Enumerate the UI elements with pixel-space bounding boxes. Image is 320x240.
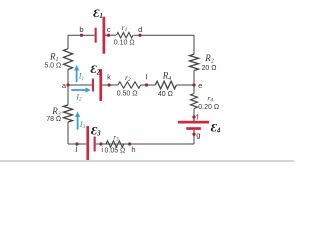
wire top-left segment b <box>68 34 94 36</box>
current arrow I2 <box>71 89 85 91</box>
svg-text:I2: I2 <box>75 92 82 102</box>
svg-text:78 Ω: 78 Ω <box>46 116 61 123</box>
node l <box>145 83 148 86</box>
svg-text:g: g <box>196 131 200 140</box>
node f <box>192 115 195 118</box>
wire left branch upper <box>67 35 69 49</box>
node h <box>128 142 131 145</box>
resistor R3 78 ohm (left lower) <box>64 105 73 122</box>
svg-text:40 Ω: 40 Ω <box>158 91 173 98</box>
wire bottom right segment <box>96 143 194 145</box>
node i <box>99 142 102 145</box>
page rule (bottom gray line) <box>0 160 294 162</box>
node d <box>138 34 141 37</box>
current arrow I1 <box>76 71 78 83</box>
svg-text:a: a <box>62 81 67 90</box>
svg-text:0.05 Ω: 0.05 Ω <box>104 148 125 155</box>
node a <box>66 83 69 86</box>
svg-text:Ɛ4: Ɛ4 <box>211 121 221 135</box>
svg-text:j: j <box>75 144 78 153</box>
svg-text:c: c <box>107 25 111 34</box>
svg-text:0.50 Ω: 0.50 Ω <box>117 90 138 97</box>
battery EMF eps3 short plate <box>94 137 96 152</box>
current arrow I3 <box>77 117 79 130</box>
svg-text:r3: r3 <box>113 134 119 143</box>
battery EMF eps2 long plate <box>99 69 102 101</box>
wire red stub eps4 short plate to node g <box>193 130 195 135</box>
node c <box>107 34 110 37</box>
svg-text:R1: R1 <box>49 52 59 64</box>
wire middle branch a to eps2 <box>68 84 92 86</box>
node g <box>192 133 195 136</box>
node k <box>108 83 111 86</box>
wire middle branch k to r2 <box>102 84 118 86</box>
battery EMF eps3 long plate <box>86 126 89 160</box>
resistor r4 0.20 ohm (right) <box>191 94 198 109</box>
wire middle branch to node e <box>176 84 194 86</box>
resistor R2 20 ohm (right) <box>190 54 199 70</box>
wire right branch f segment <box>193 109 195 121</box>
resistor R1 5.0 ohm (left upper) <box>64 49 73 70</box>
svg-text:r4: r4 <box>207 93 213 103</box>
wire left branch middle <box>67 70 69 106</box>
svg-text:h: h <box>131 145 135 154</box>
wire red stub node f to eps4 long plate <box>193 117 195 121</box>
battery EMF eps1 short plate <box>95 28 97 43</box>
battery EMF eps1 long plate <box>103 17 106 54</box>
svg-text:R4: R4 <box>162 70 172 82</box>
wire right branch through e <box>193 71 195 94</box>
svg-text:d: d <box>138 25 142 34</box>
wire bottom left segment j <box>68 143 86 145</box>
battery EMF eps4 long plate <box>178 121 209 124</box>
svg-text:r1: r1 <box>122 23 128 33</box>
wire right branch top <box>193 35 195 54</box>
svg-text:r2: r2 <box>125 73 131 83</box>
svg-text:b: b <box>79 25 83 34</box>
svg-text:0.20 Ω: 0.20 Ω <box>198 104 219 111</box>
svg-text:I1: I1 <box>78 72 85 82</box>
wire red stub eps1 to node c <box>104 34 109 36</box>
svg-text:Ɛ2: Ɛ2 <box>91 62 101 76</box>
svg-text:0.10 Ω: 0.10 Ω <box>114 40 135 47</box>
node j <box>75 142 78 145</box>
svg-text:R2: R2 <box>204 53 214 64</box>
svg-text:Ɛ3: Ɛ3 <box>91 123 101 137</box>
resistor r3 0.05 ohm (bottom) <box>106 141 124 147</box>
wire right branch g segment <box>193 130 195 144</box>
wire top-right segment d to corner <box>134 34 195 36</box>
wire top segment c to r1 <box>105 34 116 36</box>
svg-text:i: i <box>101 145 103 154</box>
battery EMF eps2 short plate <box>92 79 94 92</box>
svg-text:f: f <box>196 112 199 121</box>
node b <box>80 34 83 37</box>
node e <box>192 83 195 86</box>
svg-text:l: l <box>146 73 148 82</box>
svg-text:e: e <box>198 81 202 90</box>
wire middle branch l segment <box>141 84 156 86</box>
svg-text:Ɛ1: Ɛ1 <box>93 6 103 20</box>
resistor r2 0.50 ohm (middle) <box>118 82 141 88</box>
svg-text:k: k <box>107 73 111 82</box>
wire left branch lower <box>67 122 69 144</box>
svg-text:20 Ω: 20 Ω <box>202 65 217 72</box>
svg-text:I3: I3 <box>79 120 86 130</box>
svg-text:5.0 Ω: 5.0 Ω <box>44 63 61 70</box>
resistor R4 40 ohm (middle right) <box>155 81 176 89</box>
resistor r1 0.10 ohm (top) <box>117 33 134 38</box>
battery EMF eps4 short plate <box>186 127 201 130</box>
